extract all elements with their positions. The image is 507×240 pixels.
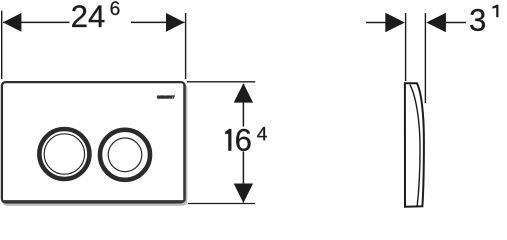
width dimension arrow left [3,13,22,32]
height superscript 4 [257,127,267,140]
side profile face line [410,85,420,206]
height dimension line lower segment [242,152,244,203]
depth dimension tail line right [446,22,466,24]
width dimension extension line left [1,11,3,79]
plate shadow [3,84,186,204]
width dimension line left segment [3,21,70,23]
height dimension extension line top [187,81,255,83]
plate right bevel line [183,85,185,199]
height dimension line upper segment [242,84,244,127]
large flush button inner circle [44,134,84,174]
large flush button outer ring [39,129,89,179]
depth superscript 1 [493,5,499,17]
width value 24 [72,5,104,27]
width superscript 6 [111,1,120,15]
plate bottom bevel line [4,200,183,202]
small flush button inner circle [108,138,142,172]
width dimension arrow right [166,13,185,32]
height value digit 1 [225,129,231,151]
flush plate outline (front view) [2,82,185,202]
Geberit logo [157,96,175,99]
depth dimension arrow left [385,13,405,33]
width dimension extension line right [185,13,187,79]
depth dimension arrow right [426,13,446,33]
height dimension arrow down [234,184,253,203]
depth dimension tail line left [366,22,386,24]
height dimension extension line bottom [188,203,255,205]
height dimension arrow up [234,83,253,102]
height value digit 6 [236,129,250,151]
width dimension line right segment [131,21,185,23]
depth value 3 [470,9,485,31]
depth dimension extension line left [405,13,407,81]
small flush button outer ring [100,130,150,180]
side profile outline [405,83,424,207]
depth dimension extension line right [424,13,426,103]
